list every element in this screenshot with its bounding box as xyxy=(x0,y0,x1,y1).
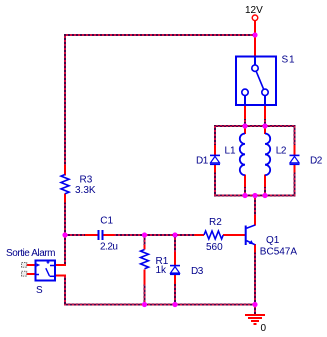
connector pad lower of switch S xyxy=(22,271,27,276)
svg-text:R3: R3 xyxy=(80,175,93,186)
wire S1 left pin to rail xyxy=(244,119,246,127)
node D3 bottom xyxy=(172,302,177,307)
svg-text:S: S xyxy=(36,285,43,296)
wire relay rail to Q1 collector xyxy=(254,195,256,217)
resistor R1 xyxy=(141,250,149,269)
wire L1 bottom stub xyxy=(244,187,246,196)
pin switch S right upper red xyxy=(55,264,66,266)
node relay rail left top xyxy=(242,123,247,128)
wire D1 lower branch xyxy=(214,172,216,196)
svg-text:L1: L1 xyxy=(225,146,237,157)
svg-text:Sortie Alarm: Sortie Alarm xyxy=(6,248,55,259)
pin R3 bottom red xyxy=(64,194,66,203)
svg-text:2.2u: 2.2u xyxy=(100,242,117,253)
wire node A to C1 left xyxy=(64,234,85,236)
svg-text:12V: 12V xyxy=(245,5,263,16)
wire D2 upper branch xyxy=(294,125,296,146)
wire R1 bottom stub xyxy=(144,284,146,305)
svg-text:R2: R2 xyxy=(209,217,222,228)
svg-text:S1: S1 xyxy=(282,55,296,66)
svg-text:3.3K: 3.3K xyxy=(75,185,96,196)
pin Q1 emitter red xyxy=(254,244,256,253)
node A left junction xyxy=(62,232,67,237)
diode D2 xyxy=(290,155,300,164)
svg-text:560: 560 xyxy=(206,242,223,253)
node relay rail center bottom xyxy=(252,193,257,198)
wire left vertical upper (top rail to R3) xyxy=(64,34,66,166)
resistor R2 xyxy=(204,231,223,239)
pin R1 top red xyxy=(144,245,146,250)
svg-text:D3: D3 xyxy=(191,266,204,277)
svg-text:L2: L2 xyxy=(276,146,287,157)
pin switch S left lower red xyxy=(27,273,36,275)
pin L1 bottom red xyxy=(244,175,246,188)
switch S (Sortie Alarm) xyxy=(36,261,56,281)
wire relay top rail xyxy=(214,125,296,127)
wire 12V terminal to S1 box (red pin wire) xyxy=(254,20,256,56)
svg-text:Q1: Q1 xyxy=(266,235,280,246)
pin Q1 collector red xyxy=(254,215,256,226)
wire switch lower pin down to ground rail xyxy=(64,275,66,306)
node relay rail left bottom xyxy=(242,193,247,198)
pin switch S left upper red xyxy=(27,264,36,266)
pin R2 left red xyxy=(195,234,205,236)
wire C1 right to R2 left (through R1/D3 nodes) xyxy=(114,234,195,236)
wire D1 upper branch xyxy=(214,125,216,146)
diode D3 xyxy=(170,266,180,275)
node ground junction xyxy=(252,302,257,307)
wire R1 top stub xyxy=(144,234,146,246)
pin switch S right lower red xyxy=(55,275,66,277)
pin R3 top red xyxy=(64,165,66,176)
svg-text:C1: C1 xyxy=(100,216,113,227)
svg-text:0: 0 xyxy=(261,323,267,334)
pin D1 top red xyxy=(214,145,216,155)
connector pad upper of switch S xyxy=(22,263,27,268)
pin R1 bottom red xyxy=(144,270,146,285)
pin D3 top red xyxy=(174,252,176,265)
wire L2 bottom stub xyxy=(264,187,266,196)
transistor Q1 xyxy=(246,225,256,245)
diode D1 xyxy=(210,155,220,164)
capacitor C1 xyxy=(99,230,103,240)
switch S1 xyxy=(236,56,276,105)
ground xyxy=(245,315,265,324)
wire D3 bottom stub xyxy=(174,283,176,305)
node R1 bottom xyxy=(142,302,147,307)
pin D1 bottom red xyxy=(214,165,216,173)
svg-text:D2: D2 xyxy=(310,156,323,167)
node relay rail right bottom xyxy=(262,193,267,198)
pin D3 bottom red xyxy=(174,275,176,285)
pin D2 top red xyxy=(294,145,296,155)
terminal 12V xyxy=(252,15,258,21)
resistor R3 xyxy=(61,175,69,194)
wire top horizontal from left rail to 12V node xyxy=(64,34,256,36)
node R1 top xyxy=(142,232,147,237)
wire D2 lower branch xyxy=(294,172,296,196)
pin L2 bottom red xyxy=(264,175,266,188)
wire left vertical node A to switch upper pin xyxy=(64,235,66,266)
pin S1 right bottom pin red xyxy=(264,104,266,119)
svg-text:1k: 1k xyxy=(156,265,168,276)
pin C1 right red xyxy=(104,234,115,236)
pin D2 bottom red xyxy=(294,165,296,173)
svg-text:BC547A: BC547A xyxy=(260,246,298,257)
svg-text:D1: D1 xyxy=(196,156,209,167)
pin C1 left red xyxy=(85,234,98,236)
pin L1 top red xyxy=(244,126,246,134)
pin L2 top red xyxy=(264,126,266,134)
wire relay bottom rail xyxy=(214,195,296,197)
inductor L2 xyxy=(265,134,270,176)
wire ground rail to ground symbol xyxy=(254,304,256,315)
node relay rail right top xyxy=(262,123,267,128)
pin R2 right red to Q1 base xyxy=(223,234,245,236)
wire left vertical R3 to node A xyxy=(64,202,66,236)
inductor L1 xyxy=(240,134,245,176)
wire Q1 emitter to ground rail xyxy=(254,252,256,305)
node top 12V junction xyxy=(252,32,257,37)
wire S1 right pin to rail xyxy=(264,119,266,127)
wire D3 top stub xyxy=(174,234,176,253)
pin S1 left bottom pin red xyxy=(244,104,246,119)
wire bottom ground rail xyxy=(64,304,256,306)
node D3 top xyxy=(172,232,177,237)
